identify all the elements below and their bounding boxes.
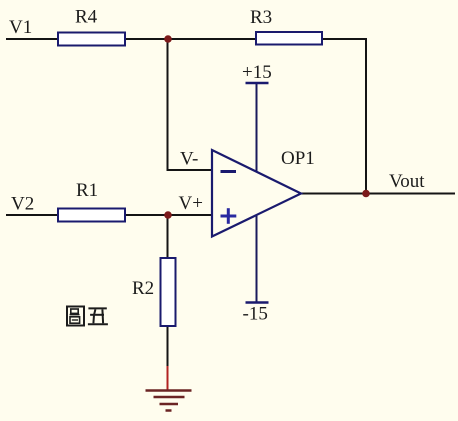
+15 rail bar — [246, 82, 269, 85]
resistor R3 — [256, 32, 322, 45]
ground — [146, 366, 192, 411]
wire output — [301, 193, 455, 195]
svg-text:-15: -15 — [243, 304, 268, 325]
svg-text:V+: V+ — [179, 193, 203, 214]
resistor R2 — [161, 258, 176, 326]
wire node A down — [167, 39, 169, 170]
wire V1 top row — [6, 38, 366, 40]
wire V- horizontal — [167, 169, 214, 171]
svg-text:V-: V- — [180, 149, 198, 170]
svg-text:Vout: Vout — [389, 171, 425, 192]
-15 rail bar — [246, 301, 269, 304]
svg-text:R4: R4 — [75, 7, 98, 28]
svg-text:+15: +15 — [242, 62, 272, 83]
label figure caption 圖五 drawn as strokes — [67, 307, 108, 326]
svg-text:OP1: OP1 — [281, 148, 315, 169]
resistor R4 — [58, 33, 125, 46]
node C output junction dot — [362, 190, 370, 198]
op-amp plus input symbol — [221, 215, 237, 218]
wire +15 supply — [256, 83, 258, 172]
svg-text:R3: R3 — [250, 7, 272, 28]
resistor R1 — [58, 209, 125, 222]
op-amp U1 triangle — [212, 150, 301, 237]
svg-text:V2: V2 — [11, 194, 34, 215]
svg-text:V1: V1 — [9, 17, 32, 38]
svg-text:R1: R1 — [76, 180, 98, 201]
wire V2 row — [6, 214, 213, 216]
op-amp minus input symbol — [221, 170, 237, 173]
svg-text:R2: R2 — [132, 278, 154, 299]
wire feedback vertical — [365, 38, 367, 194]
wire -15 supply — [256, 215, 258, 303]
node B junction dot — [164, 211, 172, 219]
node A junction dot — [164, 35, 172, 43]
wire node B down to R2 and ground — [167, 215, 169, 368]
